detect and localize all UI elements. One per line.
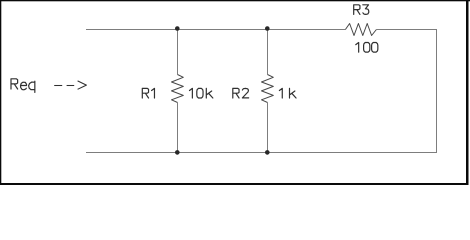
label R1 (reference designator) — [142, 88, 154, 98]
wire bottom-left segment — [86, 152, 178, 154]
wire bottom-middle segment — [178, 152, 268, 154]
resistor R3 body — [345, 24, 376, 36]
label R1 value 10k — [189, 88, 212, 98]
arrow pointing to Req port — [54, 81, 86, 89]
junction dot top-left node — [175, 26, 180, 31]
junction dot bottom-left node — [175, 150, 180, 155]
wire bottom-right segment — [268, 152, 438, 154]
resistor R1 (vertical, with leads) — [172, 30, 184, 153]
resistor R2 (vertical, with leads) — [262, 30, 274, 153]
junction dot bottom-right node — [265, 150, 270, 155]
junction dot top-right node — [265, 26, 270, 31]
wire right vertical segment — [436, 29, 438, 153]
label R2 (reference designator) — [233, 88, 249, 98]
wire top-left segment — [86, 29, 178, 31]
label R3 value 100 — [356, 43, 378, 53]
label R2 value 1k — [279, 88, 296, 98]
label R3 (reference designator) — [354, 5, 369, 15]
wire top-middle segment — [178, 29, 268, 31]
wire from R3 to right corner — [376, 29, 436, 31]
wire top-right segment to R3 — [268, 29, 346, 31]
node Req annotation text — [11, 79, 35, 93]
